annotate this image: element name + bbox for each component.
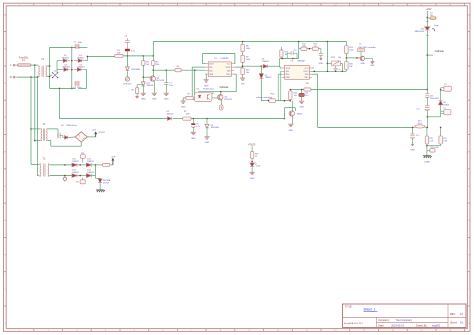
wire R10 to ground <box>242 75 244 78</box>
svg-text:GND: GND <box>289 130 294 132</box>
diode D8 <box>440 90 442 101</box>
capacitor C18 <box>412 127 414 134</box>
resistor R11 <box>301 47 307 50</box>
wire to T3 bottom <box>37 175 39 177</box>
wire rail riser <box>152 42 154 56</box>
wire divider to D6 <box>243 65 262 67</box>
capacitor C6 <box>192 119 194 124</box>
svg-text:S8050: S8050 <box>297 114 302 116</box>
wire U1 2in+ down to cathode wire <box>234 73 236 75</box>
resistor R22 <box>103 163 110 166</box>
diode D18 <box>65 136 68 140</box>
svg-text:J: J <box>468 323 469 325</box>
jumper P1 <box>220 105 223 110</box>
frame tick marks top/bottom <box>33 3 35 6</box>
svg-text:Your Company: Your Company <box>396 319 413 322</box>
svg-text:1IN-: 1IN- <box>209 67 213 69</box>
wire U1 feedback loop <box>203 63 206 65</box>
ground under Q1 <box>152 92 157 94</box>
svg-text:GND: GND <box>209 74 214 76</box>
svg-text:1N4007: 1N4007 <box>262 61 270 63</box>
svg-text:10k: 10k <box>146 64 149 66</box>
wire node down to zener D2a <box>126 56 128 67</box>
capacitor C17 <box>425 105 430 107</box>
wire to D10 <box>426 18 428 27</box>
capacitor C3 <box>126 38 128 41</box>
wire N down feed 2 <box>36 77 38 176</box>
diode D15 <box>95 176 97 179</box>
resistor R13 <box>280 47 282 50</box>
wire opto emitter to Q2 base <box>212 97 218 99</box>
svg-text:GND: GND <box>370 65 375 67</box>
junction cap drop <box>412 127 414 129</box>
fuse F2 <box>427 17 429 19</box>
wire D2 to output node <box>85 60 88 62</box>
LED1 <box>250 163 254 167</box>
svg-text:1.0: 1.0 <box>460 313 464 316</box>
wire T3 sec bottom <box>50 175 73 177</box>
svg-text:1u: 1u <box>339 69 341 71</box>
resistor R27 <box>440 127 442 136</box>
capacitor C4 <box>74 81 80 86</box>
diode D11 <box>72 163 77 167</box>
svg-text:GND: GND <box>164 99 169 101</box>
svg-text:M1: M1 <box>76 182 79 184</box>
svg-text:GND: GND <box>410 149 415 151</box>
net flag +TNG1 <box>95 133 97 137</box>
svg-text:15V 1W: 15V 1W <box>103 182 110 184</box>
wire cx node vertical <box>56 61 58 73</box>
wire D17 to ground <box>142 87 144 93</box>
ground under R7 <box>181 100 186 102</box>
svg-text:REV:: REV: <box>450 313 456 316</box>
resistor R6 <box>166 69 175 71</box>
resistor R31 <box>304 88 311 91</box>
svg-text:MBR20100: MBR20100 <box>415 31 424 33</box>
varistor RV1 <box>125 77 129 81</box>
wire bridge output to R1 <box>87 55 114 57</box>
ground under Q4 <box>288 123 293 125</box>
diode D2 <box>78 59 82 63</box>
svg-text:3.3n: 3.3n <box>169 85 173 87</box>
wire U2 output <box>87 136 95 138</box>
diode D14 <box>86 174 91 178</box>
transformer T2 <box>40 129 43 141</box>
wire D6 to U4 <box>268 65 280 67</box>
net flag +15V <box>110 164 113 166</box>
frame tick marks left/right <box>4 31 7 33</box>
svg-text:Company:: Company: <box>378 319 390 322</box>
wire cap join <box>427 116 440 118</box>
svg-text:4.7n: 4.7n <box>131 50 135 52</box>
title block vertical divider left <box>376 317 378 327</box>
svg-text:1N4148: 1N4148 <box>147 85 154 87</box>
title block vertical divider right <box>447 304 449 328</box>
svg-text:TP12: TP12 <box>270 94 275 96</box>
diode D5 <box>168 117 172 121</box>
junction R11 R12 <box>307 48 313 50</box>
wire D10 down <box>426 31 428 90</box>
wire rail to R11 row <box>298 42 300 49</box>
wire L to T2 top <box>30 128 32 130</box>
wire U4 vcc stub <box>312 67 314 69</box>
svg-text:C14: C14 <box>293 50 296 52</box>
wire base node to Q1 <box>143 76 150 78</box>
op-amp U4 <box>285 65 310 79</box>
svg-text:100u: 100u <box>78 42 82 44</box>
wire R4 to node70 <box>152 65 154 70</box>
svg-text:G: G <box>4 220 6 222</box>
svg-text:1N5822: 1N5822 <box>72 172 79 174</box>
svg-text:G: G <box>468 220 470 222</box>
svg-text:1N5822: 1N5822 <box>87 161 94 163</box>
svg-text:LM358P: LM358P <box>221 58 229 60</box>
svg-text:Cathode: Cathode <box>435 50 445 53</box>
transformer T1 <box>38 66 41 77</box>
wire T4 box stub <box>360 52 362 57</box>
diode D7 <box>260 66 262 73</box>
resistor R12 <box>312 47 318 50</box>
svg-text:SS810: SS810 <box>443 104 449 106</box>
svg-text:10k: 10k <box>338 57 341 59</box>
opto U3 <box>195 93 212 102</box>
diode D12 <box>86 163 91 167</box>
junction rail pot riser <box>327 41 329 43</box>
svg-text:1N4748A: 1N4748A <box>131 68 140 71</box>
thermistor RT1 <box>415 125 426 128</box>
resistor R25 <box>345 58 347 62</box>
svg-text:GND: GND <box>204 85 209 87</box>
svg-text:Date:: Date: <box>378 325 384 328</box>
svg-text:BC547B: BC547B <box>157 80 165 82</box>
svg-text:J: J <box>4 323 5 325</box>
wire D7 down <box>260 79 262 101</box>
transformer T3 <box>39 164 42 176</box>
svg-text:+TNG1: +TNG1 <box>98 132 106 134</box>
svg-text:hzgb92: hzgb92 <box>432 325 441 328</box>
svg-text:Sheet_1: Sheet_1 <box>364 308 376 312</box>
junction cathode stub <box>427 54 429 56</box>
svg-text:TITLE:: TITLE: <box>345 306 353 309</box>
capacitor C8 <box>57 133 59 139</box>
diode D4 <box>77 68 81 72</box>
resistor R5 <box>136 85 138 88</box>
svg-text:1N4007: 1N4007 <box>265 77 272 79</box>
junction fuse output <box>34 64 36 66</box>
wire bottom bridge rail <box>50 87 76 89</box>
svg-text:1N4007: 1N4007 <box>62 58 70 60</box>
svg-text:GND: GND <box>181 106 186 108</box>
wire top bridge rail <box>50 46 76 48</box>
svg-text:2019-05-01: 2019-05-01 <box>391 325 404 328</box>
transistor Q5 <box>360 56 364 60</box>
wire C2 to node <box>126 51 128 56</box>
wire U4 pin3 down <box>278 73 282 75</box>
title block outline <box>343 304 467 328</box>
capacitor C16 <box>426 90 428 94</box>
svg-text:EasyEDA V6.4.25.1: EasyEDA V6.4.25.1 <box>344 322 364 325</box>
ground under C18 <box>411 143 414 145</box>
resistor R7 <box>186 96 193 99</box>
wire opto feed <box>194 70 196 94</box>
opto T4 <box>357 49 365 52</box>
svg-text:10R: 10R <box>186 114 190 116</box>
wire D15 to ground <box>99 183 101 189</box>
wire node70 to C7 <box>153 69 166 71</box>
svg-text:LED: LED <box>257 166 261 168</box>
wire D12 out <box>92 164 96 166</box>
svg-text:1N4007: 1N4007 <box>166 114 174 116</box>
junction N wire <box>30 76 32 78</box>
svg-text:C17: C17 <box>416 108 419 110</box>
resistor R19 <box>250 152 253 159</box>
terminal L <box>13 64 15 66</box>
wire U4 pin 2in- jog <box>312 73 318 75</box>
wire bridge AC stub top <box>57 60 61 62</box>
wire U1 vcc to divider <box>234 66 242 68</box>
wire right block bottom rail <box>318 126 415 128</box>
svg-text:R5: R5 <box>131 90 133 92</box>
svg-text:100k: 100k <box>246 48 250 50</box>
fuse F1 <box>18 64 31 67</box>
resistor R30 <box>289 90 291 92</box>
diode D6 <box>263 65 267 69</box>
junction rail C6 <box>193 118 195 120</box>
svg-text:GND: GND <box>205 142 210 144</box>
ground under R10 <box>240 77 245 79</box>
wire switch to node <box>275 100 290 102</box>
svg-text:TP13 GND: TP13 GND <box>430 147 439 149</box>
wire node to T4 <box>346 57 360 59</box>
svg-text:2IN-: 2IN- <box>227 71 231 73</box>
svg-text:2200u/35V: 2200u/35V <box>430 98 439 100</box>
wire Q1 emitter to ground <box>153 81 155 93</box>
svg-text:+12V: +12V <box>92 130 97 132</box>
ground under U1 <box>204 79 209 81</box>
svg-text:DB107(xxx): DB107(xxx) <box>67 125 78 127</box>
wire fuse to T1 <box>31 64 38 66</box>
diode D13 <box>72 174 77 178</box>
capacitor C2 <box>125 49 130 51</box>
ground under LED <box>250 171 255 173</box>
capacitor CX across line <box>53 73 58 78</box>
wire output join <box>95 165 97 176</box>
switch S1 <box>261 100 269 102</box>
wire D4 to bottom rail <box>84 69 87 71</box>
junction R24 bottom <box>345 54 347 58</box>
resistor R10 <box>241 68 244 75</box>
ground under D9 <box>204 136 209 138</box>
wire feedback row <box>280 58 299 60</box>
wire R3 down to base node <box>142 65 144 77</box>
svg-text:Cuje: Cuje <box>434 25 439 27</box>
capacitor C14 <box>287 52 291 54</box>
capacitor C13 under R12 <box>318 48 321 50</box>
svg-text:GND: GND <box>299 107 304 109</box>
capacitor C7 <box>165 70 167 82</box>
wire bridge AC stub bottom <box>57 69 62 71</box>
resistor R4 <box>152 56 154 61</box>
polar cap C9 <box>64 176 66 177</box>
resistor R26 <box>426 127 428 136</box>
probe hook <box>432 29 434 31</box>
wire R1 to node <box>123 55 143 57</box>
svg-text:GND: GND <box>191 138 196 140</box>
diode D1 <box>63 59 67 63</box>
wire U2 bottom loop <box>80 142 82 146</box>
svg-text:10k: 10k <box>349 66 352 68</box>
wire T1 secondary bottom <box>47 76 49 78</box>
potentiometer R28 <box>331 61 340 66</box>
wire U1 gnd pin <box>204 73 207 75</box>
wire N to T1 <box>17 76 38 78</box>
svg-text:1/1: 1/1 <box>460 321 464 324</box>
svg-text:1IN+: 1IN+ <box>286 74 290 76</box>
svg-text:LM358P: LM358P <box>297 61 305 63</box>
ground under D17 <box>141 92 146 94</box>
junction rail right <box>427 89 429 91</box>
wire T3 sec top <box>50 164 73 166</box>
wire T2 sec top <box>48 128 58 130</box>
svg-text:CGND: CGND <box>424 161 430 163</box>
diode D10 <box>425 27 430 30</box>
wire Q2 emitter <box>220 100 222 105</box>
resistor R9 <box>242 52 244 56</box>
svg-text:4.7u: 4.7u <box>416 135 420 137</box>
svg-text:1IN-: 1IN- <box>286 71 290 73</box>
wire to T2 bottom <box>34 140 36 142</box>
resistor R24 <box>345 42 347 46</box>
transistor Q2 <box>218 95 223 100</box>
svg-text:1N5822: 1N5822 <box>87 172 94 174</box>
svg-text:Sheet:: Sheet: <box>450 321 458 324</box>
svg-text:2IN-: 2IN- <box>305 74 309 76</box>
title block mid divider <box>377 321 449 323</box>
svg-text:Cathode: Cathode <box>219 86 229 89</box>
junction bottom rail to long rail <box>59 88 61 90</box>
svg-text:+24V: +24V <box>426 8 432 11</box>
svg-text:GND: GND <box>141 99 146 101</box>
wire N to T3 top <box>31 163 39 165</box>
svg-text:N: N <box>10 76 12 79</box>
wire LED to ground <box>251 167 253 172</box>
svg-text:4.7u: 4.7u <box>305 95 309 97</box>
ground T4 <box>370 61 374 63</box>
wire pot riser <box>326 42 328 72</box>
svg-text:10k: 10k <box>246 72 249 74</box>
bridge rectifier U2 <box>75 132 87 142</box>
svg-text:1IN+: 1IN+ <box>209 71 213 73</box>
ground under C6 <box>191 131 196 133</box>
connector T6 <box>440 105 442 117</box>
svg-text:471KD07: 471KD07 <box>123 84 132 86</box>
wire Q5 emitter right <box>364 57 372 59</box>
wire left bridge rail vertical <box>49 47 51 88</box>
svg-text:PC817-base: PC817-base <box>203 89 215 91</box>
wire U1 pin2 to opto <box>192 66 205 68</box>
svg-text:120k: 120k <box>349 50 353 52</box>
svg-text:4.7u: 4.7u <box>196 126 200 128</box>
svg-text:10k: 10k <box>294 95 297 97</box>
svg-text:GND: GND <box>250 178 255 180</box>
wire zener to MOV <box>126 71 128 77</box>
transistor Q1 <box>150 76 155 81</box>
svg-text:1N4748A: 1N4748A <box>211 126 220 129</box>
wire mid rail <box>290 89 304 91</box>
earth ground right <box>423 155 431 157</box>
svg-text:1N5822: 1N5822 <box>72 161 79 163</box>
diode D3 <box>64 68 68 72</box>
wire R26 R27 join <box>427 145 441 147</box>
svg-text:1k: 1k <box>255 156 257 158</box>
svg-text:+TNG5: +TNG5 <box>248 144 256 146</box>
wire R7 to ground <box>182 98 184 101</box>
wire L down feed <box>34 65 36 141</box>
resistor R2 <box>183 117 191 120</box>
connector T5 <box>444 86 451 91</box>
capacitor C1 <box>74 44 80 49</box>
diode D17 <box>142 77 144 82</box>
svg-text:10k: 10k <box>156 64 159 66</box>
ground under C7 <box>164 92 169 94</box>
svg-text:Fuse(5A): Fuse(5A) <box>19 56 29 59</box>
ground under C12 <box>299 100 304 102</box>
ground under C13 <box>320 58 323 60</box>
junction D11 D12 <box>78 164 87 166</box>
junction rail D9 <box>206 118 208 120</box>
svg-text:100k: 100k <box>246 59 250 61</box>
wire pot left <box>327 62 331 64</box>
wire R19 to LED <box>251 159 253 164</box>
wire top rail <box>153 41 346 43</box>
svg-text:2IN+: 2IN+ <box>227 74 231 76</box>
wire Q4 emitter to ground <box>292 116 294 124</box>
capacitor C15 under pot <box>335 66 337 68</box>
junction D13 D14 <box>78 175 87 177</box>
wire node to riser <box>143 55 153 57</box>
testpoint TP13 <box>430 149 435 152</box>
svg-text:+15V: +15V <box>110 157 116 159</box>
junction rail R11 feed <box>298 41 300 43</box>
resistor R1 <box>115 54 123 57</box>
svg-text:GND: GND <box>286 77 291 79</box>
junction divider mid <box>242 62 244 68</box>
svg-text:GND: GND <box>319 63 324 65</box>
transistor Q4 loop <box>284 118 286 120</box>
wire opto collector top <box>212 93 213 95</box>
zener D9 <box>206 119 208 125</box>
op-amp U1 <box>208 62 231 77</box>
junction rail divider <box>242 41 244 43</box>
capacitor C12 <box>301 90 303 94</box>
wire D14 out <box>92 175 96 177</box>
wire T1 secondary top <box>47 65 49 67</box>
wire long rail <box>59 118 167 120</box>
svg-text:GND: GND <box>152 99 157 101</box>
svg-text:2IN+: 2IN+ <box>304 77 308 79</box>
wire right block vertical <box>317 74 319 127</box>
wire D18 to bridge <box>68 136 75 139</box>
resistor R8 <box>242 42 244 45</box>
wire R6 to U1 pin3 <box>181 69 205 71</box>
resistor R3 <box>142 56 144 61</box>
svg-text:Drawn By:: Drawn By: <box>416 325 428 328</box>
wire U4 pin2 down <box>280 70 283 72</box>
terminal N <box>13 76 15 78</box>
wire pot right <box>341 62 343 64</box>
svg-text:GND: GND <box>360 63 365 65</box>
svg-text:BC547B: BC547B <box>224 99 232 101</box>
